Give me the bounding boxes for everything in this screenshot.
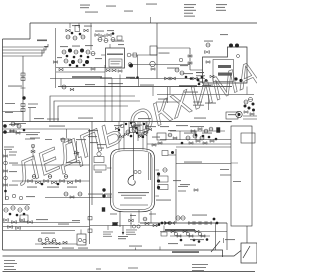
- title block slash: [243, 246, 250, 258]
- instrument bubble top-mid 3: [81, 35, 85, 39]
- valve left edge 2: [16, 132, 20, 135]
- nozzle extra valve 1: [115, 127, 118, 129]
- BL label 2: [41, 233, 55, 234]
- BL cluster valve 5: [8, 226, 13, 229]
- pipe drop from top line 3: [90, 23, 92, 50]
- bottom line instrument 2: [137, 225, 140, 228]
- trap riser: [80, 230, 82, 235]
- stub line y102: [156, 101, 180, 103]
- junction dot top-mid 2: [79, 33, 82, 36]
- branch line y111: [3, 111, 24, 113]
- instrument bottom-left of vessel: [78, 192, 82, 196]
- left feed bus line 1: [3, 44, 49, 47]
- check valve mid-left: [62, 85, 66, 89]
- instrument bubble LI-4 dark: [85, 60, 89, 64]
- label above valve group 2: [84, 26, 92, 27]
- MH bubble 3: [168, 133, 172, 137]
- BR row2 dot 4: [198, 240, 201, 243]
- valve row y180 5: [60, 180, 65, 183]
- nozzle drop 4: [137, 122, 139, 142]
- left feed bus line 4: [3, 50, 43, 56]
- beam symbol right of package: [133, 53, 137, 57]
- header revision text block: [184, 4, 196, 5]
- BL extra bubble row 3: [19, 196, 23, 200]
- stub line label: [158, 99, 168, 100]
- BR bubble 2: [181, 216, 185, 220]
- under-vessel label 2: [130, 215, 136, 216]
- header title text block: [216, 4, 227, 5]
- MH valve 2: [158, 142, 162, 145]
- riser to bubbles x66: [66, 129, 68, 138]
- instrument bubble top-mid 2: [73, 36, 77, 40]
- vessel dip tube: [148, 153, 150, 180]
- vessel top nozzle c: [142, 144, 144, 150]
- double drop x170: [169, 87, 171, 95]
- pipe drop x120: [119, 75, 121, 122]
- MH right bubble 1: [204, 129, 208, 133]
- label top-right: [204, 41, 213, 42]
- instrument above line 2: [180, 71, 184, 75]
- outlet valve 3: [145, 222, 149, 225]
- label BL row: [88, 194, 103, 195]
- RV dot 2: [215, 138, 218, 141]
- BL extra label: [26, 196, 35, 197]
- drain label stack x103: [103, 231, 113, 234]
- utility marks on pipe x90 b: [88, 229, 92, 232]
- vessel dish inner line: [120, 204, 148, 206]
- agitator motor small circle: [179, 58, 183, 62]
- BL pump box: [20, 215, 28, 222]
- label vessel dome left 2: [97, 148, 104, 149]
- dark instrument on U2 top 1: [229, 44, 233, 48]
- vessel top nozzle b: [123, 141, 125, 150]
- pipe cluster line 1: [56, 67, 105, 69]
- MH dot 3: [142, 136, 144, 138]
- BL cluster valve 2: [12, 221, 17, 224]
- BR dot 2: [213, 218, 216, 221]
- vertical utility pipe x190: [189, 48, 191, 70]
- page bottom line: [3, 271, 256, 273]
- pump dot U2 a: [234, 77, 237, 80]
- instrument bubble LI-2 dark: [71, 60, 75, 64]
- label above valve group: [72, 25, 80, 26]
- dome right instrument box: [162, 151, 168, 156]
- label above valves 2: [180, 65, 188, 66]
- MH right dot 2: [202, 135, 205, 138]
- valve top-mid row2 1: [95, 34, 99, 37]
- vertical tick x208: [208, 95, 210, 111]
- notes text left line 1: [4, 260, 15, 261]
- utility pipe pair down 1: [89, 129, 91, 244]
- agitator shaft: [133, 133, 135, 181]
- vessel level instrument pair: [134, 170, 137, 173]
- label valve row 3: [67, 187, 77, 188]
- valve on cluster feed riser: [54, 61, 58, 64]
- dense label c: [203, 85, 213, 86]
- valve left edge 1: [10, 130, 14, 133]
- MH drop 1: [179, 131, 181, 140]
- instrument bubble TI-1: [62, 50, 66, 54]
- MH drop x146: [145, 122, 147, 131]
- instrument bubble PI-1: [74, 50, 78, 54]
- double block symbol: [75, 26, 80, 32]
- valve MR2: [250, 113, 254, 116]
- bottom process line y225: [90, 225, 160, 227]
- instrument on package right 1: [127, 53, 131, 57]
- label by pumps 1: [9, 124, 19, 125]
- label valve row 2: [47, 187, 59, 188]
- MH bubble 2: [132, 128, 136, 132]
- BR dot 3: [216, 222, 219, 225]
- agitator impeller: [128, 175, 135, 185]
- secondary line drop: [246, 87, 248, 95]
- dome label left 3: [90, 142, 98, 143]
- vertical pipe x23: [22, 56, 24, 122]
- valve under package 2: [112, 69, 116, 72]
- RV valve 2: [196, 140, 200, 143]
- BR row2 bubble 1: [174, 232, 177, 235]
- pipe from package to valve column: [132, 64, 190, 66]
- BR bubble 1: [176, 216, 180, 220]
- MH label 3: [131, 126, 140, 127]
- BR label mid: [192, 215, 207, 216]
- rotameter feed line: [76, 141, 78, 162]
- jacket dark flange: [102, 208, 105, 212]
- pipe drop x112: [111, 79, 113, 122]
- dense valve group a: [199, 81, 203, 84]
- vertical from vessel right x176: [175, 149, 177, 223]
- BR second row pipe: [160, 231, 227, 233]
- process line valve B: [171, 77, 176, 80]
- notes text center: [128, 268, 138, 269]
- MH bubble 1: [126, 130, 130, 134]
- vent tick above top line: [150, 17, 152, 23]
- valve row y180 3: [44, 180, 49, 183]
- small circle in U2: [237, 55, 240, 58]
- nozzle drop 1: [118, 122, 120, 145]
- junction dot line y78 b: [190, 77, 193, 80]
- BR label top: [156, 200, 171, 201]
- level column label b: [178, 186, 188, 187]
- header label 2: [34, 118, 44, 119]
- instrument above valve row 1: [32, 175, 36, 179]
- nozzle extra valve 2: [148, 128, 151, 130]
- pipe drop x153: [152, 87, 154, 96]
- MH valve 1: [152, 144, 156, 147]
- label left of valve: [66, 162, 81, 163]
- BR row2 bubble 3: [198, 232, 201, 235]
- BL cluster dot 2: [16, 214, 19, 217]
- page number mark: [96, 269, 101, 270]
- glycol line 1: [243, 115, 257, 117]
- junction dot left edge: [23, 129, 26, 132]
- MH valve x140: [138, 134, 142, 137]
- valve top-mid row2 2: [101, 35, 105, 38]
- nozzle junction dot 2: [135, 127, 137, 129]
- drain label 1: [43, 247, 59, 248]
- valve row y180 4: [52, 181, 57, 184]
- nozzle extra bubble 1: [120, 124, 124, 128]
- line label y138 c: [60, 139, 69, 140]
- package nozzle 1: [109, 44, 111, 48]
- gate valve label 1: [28, 104, 38, 105]
- drain label 3: [78, 248, 88, 249]
- bottom line valve 1: [153, 224, 157, 227]
- BR valve 5: [201, 222, 206, 225]
- MH drop 2: [195, 131, 197, 140]
- BR row2 valve 4: [189, 235, 193, 238]
- drawing bottom line 2: [3, 251, 242, 257]
- corner dot x137: [136, 76, 139, 79]
- nozzle valve 4: [143, 133, 147, 135]
- header note text block 2: [85, 12, 98, 13]
- BR label row2: [168, 243, 178, 244]
- secondary line label: [184, 92, 198, 93]
- label on line3 a: [100, 77, 112, 78]
- BL cluster bubble 4: [25, 206, 29, 210]
- right rect label a: [220, 169, 229, 170]
- BR row2 dot 1: [180, 239, 183, 242]
- MH box: [157, 133, 166, 140]
- pipe cluster line 2: [56, 71, 105, 73]
- left feed bus line 3: [3, 48, 45, 53]
- junction dot F: [76, 65, 79, 68]
- vessel outlet drop 2: [130, 214, 132, 225]
- pipe into tall box: [190, 69, 203, 71]
- instrument box vessel-left 1: [94, 157, 104, 163]
- instrument bubble PI-2 dark: [80, 49, 84, 53]
- instrument bubble LI-1: [64, 59, 68, 63]
- gate valve on x23 4: [21, 109, 25, 112]
- valve row y180 2: [36, 181, 41, 184]
- MH right bubble 2: [209, 127, 213, 131]
- far-left label 2: [9, 163, 18, 164]
- BL cluster valve 4: [28, 221, 33, 224]
- BL fan pipe 3: [3, 230, 75, 232]
- label near x70 bubble: [76, 139, 86, 140]
- rotameter valve pair: [74, 151, 79, 155]
- main header line y121: [3, 121, 232, 123]
- bottom drain row bubble 1: [38, 238, 42, 242]
- label on line3 b: [130, 78, 137, 79]
- top border line: [30, 22, 257, 24]
- valve bottom-left of vessel 2: [70, 196, 74, 199]
- instrument bubble mid 1: [150, 61, 155, 66]
- header label 4: [194, 118, 206, 119]
- BR second row pipe b: [170, 235, 210, 237]
- gate valve on x23 2: [21, 78, 25, 81]
- instrument bubble left 1: [11, 122, 15, 126]
- instrument bubble x63: [61, 138, 65, 142]
- dome right dark dot: [171, 151, 174, 154]
- small marks right of cluster A: [117, 36, 122, 40]
- RV label 2: [202, 133, 212, 134]
- valve C: [193, 77, 198, 80]
- top-left horizontal to left border: [3, 38, 31, 40]
- instrument on package right 2: [128, 63, 132, 67]
- branch x30 to header: [29, 108, 31, 122]
- bottom drain valve 2: [49, 241, 53, 244]
- steam trap dots: [102, 188, 105, 191]
- vessel top nozzle d: [146, 144, 148, 151]
- BL cluster bubble 2: [11, 206, 15, 210]
- junction dot C: [80, 55, 83, 58]
- nozzle valve 1: [120, 135, 124, 137]
- vapor line y155: [168, 154, 176, 156]
- right wall dot 2: [157, 179, 160, 182]
- vessel outlet drop 3: [138, 210, 140, 223]
- notes text right 3: [192, 270, 204, 271]
- leader slash: [211, 241, 220, 252]
- title block box: [241, 243, 257, 263]
- pipe drop from top line 2: [78, 23, 80, 28]
- watermark diagonal text: [9, 54, 264, 192]
- label near PI-3: [85, 45, 93, 46]
- far-left dot: [4, 190, 7, 193]
- label cluster B left: [57, 57, 62, 58]
- feed line y132: [3, 132, 41, 134]
- BR row2 bubble 2: [186, 232, 189, 235]
- vessel top nozzle a: [118, 144, 120, 151]
- glycol return line y223: [140, 222, 227, 224]
- bottom drain valve 4: [63, 241, 67, 244]
- BL fan pipe 2: [3, 226, 90, 228]
- pipe from package to riser: [131, 54, 157, 56]
- level column box 1: [158, 176, 168, 182]
- inner table in U2: [213, 60, 234, 82]
- BL cluster bubble 1: [4, 208, 8, 212]
- transfer line label 1: [108, 83, 123, 84]
- valve in U2 left: [206, 61, 210, 64]
- left feed bus line 2: [3, 46, 47, 50]
- outlet arrow down: [130, 223, 132, 229]
- outlet label stack: [126, 229, 137, 232]
- x33 stub pipe: [32, 145, 34, 160]
- gate valve label 2: [28, 107, 36, 108]
- right rect label b: [220, 175, 231, 176]
- pump dot U2 b: [239, 79, 242, 82]
- dense label a: [183, 73, 193, 74]
- notes text left line 2: [4, 263, 17, 264]
- BR valve 1 dark: [165, 222, 170, 225]
- junction dot D: [87, 56, 90, 59]
- vapor line y144: [147, 143, 231, 145]
- valve under package 1: [106, 69, 110, 72]
- RV mid line: [176, 163, 231, 165]
- BR valve 2: [170, 222, 175, 225]
- MH valve 1b: [173, 137, 177, 140]
- MH label 4: [160, 126, 169, 127]
- right wall dot 3: [157, 186, 160, 189]
- RV label 1: [184, 133, 196, 134]
- BL cluster valve 1: [4, 219, 9, 222]
- RV mid label: [180, 184, 190, 185]
- label left of U2 stack: [196, 72, 204, 73]
- left border arrow label 2: [5, 112, 13, 113]
- valve top-mid 1: [66, 29, 70, 32]
- pump dot left edge 2: [3, 130, 7, 134]
- jacket nozzle left 2: [107, 195, 112, 197]
- nozzle drop 3: [128, 122, 130, 135]
- far-left valve 1: [4, 155, 8, 158]
- drop from y55 line: [137, 55, 139, 79]
- header note text block 5: [146, 4, 157, 5]
- RV bubble 2: [193, 134, 197, 138]
- nozzle extra dot 1: [125, 123, 127, 125]
- bottom drain row bubble 2: [45, 238, 49, 242]
- dark instrument x131: [129, 64, 133, 68]
- jacket feed line y197: [45, 197, 112, 199]
- top border corner vertical: [29, 23, 31, 39]
- label on transfer left: [85, 84, 95, 85]
- BL cluster valve 3: [20, 219, 25, 222]
- label above valves: [167, 68, 179, 69]
- valve top-right: [205, 51, 210, 54]
- valve V1: [59, 68, 63, 71]
- drain label 2: [62, 248, 74, 249]
- package unit box U1: [106, 48, 125, 68]
- heavy label below corner: [37, 40, 47, 42]
- label vessel-left: [95, 172, 102, 173]
- outlet valve 2: [129, 219, 133, 222]
- instrument bubble top-mid 6: [111, 38, 115, 42]
- MH line y140: [160, 139, 231, 141]
- instrument bubble TI-2 dark: [68, 49, 72, 53]
- trap instrument 1: [78, 238, 81, 241]
- BR row2 valve 1: [171, 230, 175, 233]
- heater box mid-right: [226, 112, 238, 119]
- connector x138: [138, 79, 140, 87]
- junction dot top-mid: [71, 32, 74, 35]
- pipe corner nest 1: [50, 96, 135, 122]
- bottom drop x164: [163, 226, 165, 233]
- MH right valve 1: [191, 130, 195, 133]
- utility pipe pair down 2: [91, 122, 93, 206]
- far-left valve 2: [4, 170, 8, 173]
- left border arrow label 1: [5, 103, 15, 104]
- vessel R-100 inner shell: [113, 151, 152, 210]
- feed line label: [49, 126, 65, 127]
- notes text right 2: [192, 267, 206, 268]
- nozzle drop 2: [123, 122, 125, 142]
- instrument above valve row 2: [48, 175, 52, 179]
- header label 3: [138, 118, 151, 119]
- bottom drain valve 1: [42, 242, 46, 245]
- left border pipe: [2, 39, 4, 250]
- bottom drain valve 3: [56, 242, 60, 245]
- label top-mid row2: [95, 31, 104, 32]
- BL cluster dot 3: [23, 213, 26, 216]
- label cluster B right: [95, 58, 102, 59]
- far-left label 3: [9, 171, 17, 172]
- double drop x167: [167, 87, 169, 103]
- MH right label 2: [190, 126, 204, 127]
- feed line y129: [3, 128, 90, 130]
- BL label 1: [36, 219, 48, 220]
- riser pipe x157: [156, 23, 158, 79]
- under-vessel label 1: [110, 214, 117, 215]
- nozzle valve 3: [139, 135, 143, 137]
- nozzle junction dot 1: [118, 129, 120, 131]
- MH drop x140: [139, 122, 141, 134]
- BR label row2 b: [184, 245, 196, 246]
- drain drop x123 arrow: [122, 226, 124, 234]
- BR valve 6: [207, 222, 212, 225]
- BR row2 valve 5: [195, 230, 199, 233]
- junction dot G: [83, 64, 86, 67]
- instrument bubble top-mid 1: [66, 35, 70, 39]
- BL label 3: [58, 224, 69, 225]
